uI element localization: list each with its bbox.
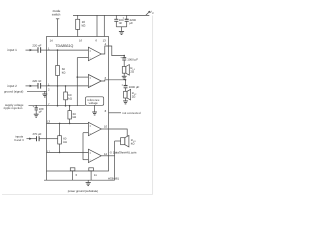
resistor Rb 60 kOhm <box>64 92 68 100</box>
resistor Rc 60 kOhm <box>68 111 72 119</box>
ground SVR <box>34 113 39 115</box>
node dot Rd bottom <box>59 152 61 154</box>
capacitor C6 470 uF <box>36 136 38 141</box>
wire IC corner drop <box>46 171 48 180</box>
svg-text:power ground (substrate): power ground (substrate) <box>68 189 98 193</box>
svg-text:220 nF: 220 nF <box>32 79 41 83</box>
capacitor C5 2200 uF <box>126 15 128 19</box>
svg-text:+: + <box>89 151 91 155</box>
wire A1 feedback <box>77 57 88 59</box>
wire pin17 to A4 <box>47 151 89 153</box>
svg-text:input 2: input 2 <box>8 84 18 88</box>
svg-text:HS8-481: HS8-481 <box>108 176 119 180</box>
wire ground rail <box>44 179 115 181</box>
wire Rb to SVR rail <box>65 100 67 106</box>
wire to Rd <box>59 123 61 135</box>
wire pin10 to speaker3 top <box>109 129 128 136</box>
svg-text:220 nF: 220 nF <box>32 43 41 47</box>
op-amp A4 <box>88 149 101 162</box>
svg-text:P: P <box>152 12 154 15</box>
ground power <box>87 180 89 182</box>
wire pin4 out <box>109 46 125 56</box>
wire speaker1 to ground <box>123 73 125 76</box>
ground speaker2 <box>123 100 128 102</box>
page frame right border <box>152 16 154 195</box>
wire input1 to A1 <box>47 49 89 51</box>
svg-text:7: 7 <box>48 102 50 106</box>
wire C7 to speaker1 <box>123 60 125 67</box>
svg-text:6: 6 <box>95 38 97 42</box>
wire sgnd to pin 2 <box>27 90 47 92</box>
bottom pad pin 11 <box>89 168 94 171</box>
svg-text:−: − <box>89 131 91 135</box>
capacitor C4 100 nF <box>115 15 117 19</box>
node dot out1 <box>123 55 125 57</box>
svg-text:voltage: voltage <box>89 101 99 105</box>
svg-text:17: 17 <box>47 149 51 153</box>
wire pin 8 not connected <box>109 112 122 114</box>
node dot Rc <box>69 123 71 125</box>
page frame bottom border <box>2 193 153 195</box>
wire A3-A4 connector <box>82 133 84 160</box>
wire C3 to ground <box>35 110 37 114</box>
wire input2 to A2 <box>47 85 89 87</box>
svg-text:+: + <box>123 16 125 20</box>
op-amp A2 <box>88 75 101 88</box>
ground signal symbol <box>44 91 46 94</box>
bottom pad pin 3 <box>70 168 75 171</box>
wire SVR internal rail <box>47 105 86 107</box>
wire speaker3 left column <box>114 141 116 180</box>
svg-text:12: 12 <box>104 152 108 156</box>
capacitor C3 100 uF <box>35 106 37 108</box>
resistor Ra 60 kOhm <box>56 66 60 76</box>
svg-text:switch: switch <box>52 12 61 16</box>
node input1 arrow <box>26 49 38 51</box>
wire inputs34 internal stub <box>47 138 58 140</box>
wire R1 to pin 16 <box>77 29 79 36</box>
wire A3 lower input <box>83 132 88 134</box>
svg-text:kΩ: kΩ <box>82 24 87 28</box>
ground supply <box>119 31 124 33</box>
node junction in2 <box>57 85 59 87</box>
reference voltage box <box>86 97 104 106</box>
capacitor C2 220 nF <box>37 83 39 89</box>
svg-text:TDA8561Q: TDA8561Q <box>55 44 73 48</box>
wire A3 output to pin 10 <box>101 128 108 130</box>
svg-text:2: 2 <box>48 88 50 92</box>
svg-text:−: − <box>89 56 91 60</box>
svg-text:3: 3 <box>75 173 77 177</box>
svg-text:14: 14 <box>50 38 54 42</box>
ground reference <box>92 111 97 113</box>
wire ref box to ground <box>94 105 96 112</box>
wire VP rail <box>73 14 149 16</box>
svg-text:2Ω: 2Ω <box>132 94 136 98</box>
svg-text:+: + <box>120 55 122 59</box>
svg-text:2Ω: 2Ω <box>130 70 134 74</box>
svg-text:+: + <box>89 49 91 53</box>
svg-text:13: 13 <box>47 120 51 124</box>
wire mode to pin 14 <box>57 19 59 37</box>
capacitor C8 1000 uF <box>125 80 127 86</box>
mode switch terminal <box>56 18 59 20</box>
svg-text:ground (signal): ground (signal) <box>4 89 23 93</box>
svg-text:+: + <box>122 83 124 87</box>
wire A4 lower input <box>83 159 88 161</box>
wire caps join <box>116 26 126 28</box>
ground speaker1 <box>122 75 127 77</box>
wire to ground <box>121 27 123 32</box>
svg-text:ripple rejection: ripple rejection <box>4 106 23 110</box>
wire C1 to pin 1 <box>41 49 47 51</box>
svg-text:4: 4 <box>105 42 107 46</box>
svg-text:10: 10 <box>104 124 108 128</box>
svg-text:4Ω: 4Ω <box>131 141 135 145</box>
svg-text:−: − <box>89 158 91 162</box>
svg-text:16: 16 <box>79 38 83 42</box>
svg-text:1000 μF: 1000 μF <box>127 57 138 61</box>
svg-text:11: 11 <box>94 173 97 177</box>
svg-text:+: + <box>89 124 91 128</box>
wire Ra down <box>57 76 59 106</box>
svg-text:6: 6 <box>105 76 107 80</box>
node dot Rd top <box>59 123 61 125</box>
svg-text:kΩ: kΩ <box>68 96 72 100</box>
svg-text:not connected: not connected <box>122 111 141 115</box>
wire C8 to speaker2 <box>125 88 127 92</box>
resistor Rd 60 kOhm <box>58 136 62 144</box>
svg-text:kΩ: kΩ <box>73 115 77 119</box>
wire VP rail to resistor R1 <box>77 15 79 19</box>
svg-text:μF: μF <box>130 21 134 25</box>
wire SVR to pin 7 <box>29 105 47 107</box>
svg-text:+: + <box>89 76 91 80</box>
wire to Rc <box>69 106 71 111</box>
node dot out2 <box>125 79 127 81</box>
svg-text:nF: nF <box>119 21 123 25</box>
speaker RL1 <box>122 67 126 74</box>
svg-text:470 μF: 470 μF <box>32 132 41 136</box>
wire Rd to pin17 line <box>59 144 61 152</box>
node junction in1 <box>57 49 59 51</box>
wire VP to pin 13 <box>103 15 105 36</box>
speaker RL3 <box>121 138 125 145</box>
resistor R1 10 kOhm <box>76 19 80 29</box>
node dots on SVR rail <box>57 105 59 107</box>
wire C2 to pin 17 <box>41 85 47 87</box>
node junction Rb top <box>65 85 67 87</box>
wire A4 output to pin 12 <box>101 155 108 157</box>
wire A1 output to pin 4 <box>101 46 108 54</box>
wire C6 to pin 15 <box>39 138 46 140</box>
op-amp A3 <box>88 122 101 135</box>
svg-text:+: + <box>33 105 35 109</box>
svg-text:kΩ: kΩ <box>63 140 67 144</box>
svg-text:input 1: input 1 <box>8 48 18 52</box>
wire speaker2 to ground <box>125 98 127 101</box>
wire junction to Ra <box>57 50 59 65</box>
node VP arrow <box>146 12 149 15</box>
wire Rc to A3 line <box>69 119 71 123</box>
speaker RL2 <box>124 91 128 98</box>
svg-text:3 and 4: 3 and 4 <box>14 138 24 142</box>
wire to Rb <box>65 86 67 92</box>
capacitor C7 1000 uF <box>123 56 125 58</box>
node input2 arrow <box>26 85 38 87</box>
wire A2 output to pin 6 <box>101 80 108 81</box>
op-amp A1 <box>88 47 101 61</box>
svg-text:kΩ: kΩ <box>62 70 66 74</box>
wire A2 upper input <box>77 76 88 78</box>
node inputs34 arrow <box>27 138 37 140</box>
wire VP to pin 6 <box>96 15 98 36</box>
wire pin6 out <box>109 79 126 81</box>
svg-text:−: − <box>89 84 91 88</box>
svg-text:8: 8 <box>105 109 107 113</box>
capacitor C1 220 nF <box>37 47 39 53</box>
op-amp IC U1 TDA8561Q body <box>47 37 109 172</box>
svg-text:μF: μF <box>39 110 43 114</box>
svg-text:© DataSheet4U.com: © DataSheet4U.com <box>110 150 137 154</box>
wire pin13 to A3 <box>47 122 89 124</box>
node SVR junction <box>36 105 37 106</box>
svg-text:1000 μF: 1000 μF <box>129 85 140 89</box>
wire pin12 to speaker3 left <box>109 155 115 157</box>
